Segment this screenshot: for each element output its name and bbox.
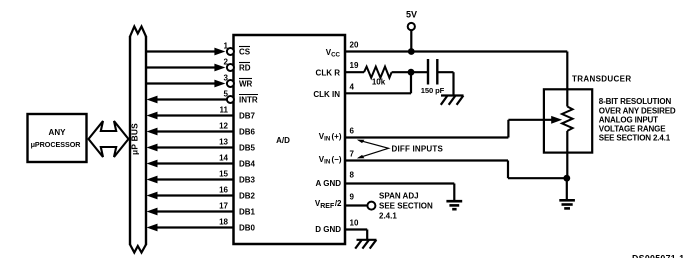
- svg-text:13: 13: [219, 137, 228, 146]
- svg-text:2: 2: [224, 57, 229, 66]
- pin 16 DB2 wire: [147, 185, 234, 199]
- svg-text:10k: 10k: [372, 78, 386, 87]
- pin label DB5: [239, 143, 256, 152]
- pin label WR: [239, 79, 253, 89]
- pin 7 label: [319, 150, 355, 166]
- D GND pin10 wire: [345, 230, 367, 240]
- svg-text:VIN(+): VIN(+): [319, 132, 342, 143]
- pin label DB0: [239, 223, 256, 232]
- svg-text:D GND: D GND: [315, 225, 341, 234]
- pin label DB7: [239, 111, 256, 120]
- svg-text:VOLTAGE RANGE: VOLTAGE RANGE: [599, 125, 666, 134]
- 5V supply terminal: [406, 10, 417, 52]
- pin label RD: [239, 63, 251, 73]
- svg-text:DB6: DB6: [239, 127, 256, 136]
- potentiometer element: [562, 107, 573, 179]
- earth ground at transducer: [559, 178, 575, 208]
- svg-text:3: 3: [224, 73, 229, 82]
- pin 11 DB7 wire: [147, 105, 234, 119]
- pin label DB3: [239, 175, 256, 184]
- svg-text:DB3: DB3: [239, 175, 256, 184]
- svg-text:9: 9: [350, 193, 355, 202]
- junction pot bottom: [563, 175, 570, 182]
- transducer box: [544, 89, 592, 152]
- svg-text:DS005071-1: DS005071-1: [632, 254, 684, 258]
- pin label DB1: [239, 207, 256, 216]
- svg-text:6: 6: [350, 127, 355, 136]
- svg-text:SPAN ADJ: SPAN ADJ: [379, 191, 419, 200]
- svg-text:2.4.1: 2.4.1: [379, 212, 397, 221]
- junction R/C/CLKIN: [408, 69, 415, 76]
- svg-text:ANY: ANY: [49, 128, 67, 137]
- svg-text:4: 4: [350, 82, 355, 91]
- svg-text:CLK IN: CLK IN: [313, 90, 340, 99]
- svg-text:TRANSDUCER: TRANSDUCER: [572, 75, 632, 84]
- svg-text:7: 7: [350, 150, 355, 159]
- svg-text:150 pF: 150 pF: [421, 86, 445, 95]
- pin 12 DB6 wire: [147, 121, 234, 135]
- svg-text:DB4: DB4: [239, 159, 256, 168]
- pin 18 DB0 wire: [147, 217, 234, 231]
- junction Vcc/5V: [408, 48, 415, 55]
- svg-text:20: 20: [350, 41, 359, 50]
- Vin(-) pin7 wire: [345, 161, 567, 179]
- uP BUS band: [130, 27, 147, 253]
- pin 17 DB1 wire: [147, 201, 234, 215]
- svg-text:A GND: A GND: [316, 179, 342, 188]
- svg-text:DIFF INPUTS: DIFF INPUTS: [392, 144, 444, 153]
- svg-text:10: 10: [350, 219, 359, 228]
- note 8-bit resolution: [599, 97, 676, 142]
- svg-text:11: 11: [220, 105, 229, 114]
- svg-text:OVER ANY DESIRED: OVER ANY DESIRED: [599, 106, 676, 115]
- svg-text:19: 19: [350, 61, 359, 70]
- pin 10 label: [315, 219, 359, 235]
- pin 9 label: [315, 193, 355, 211]
- pin 4 label: [313, 82, 354, 99]
- capacitor 150 pF: [421, 59, 454, 96]
- A/D converter chip U1: [234, 35, 346, 244]
- pin 2 RD wire: [146, 57, 234, 71]
- svg-text:5V: 5V: [406, 10, 417, 20]
- svg-text:ANALOG INPUT: ANALOG INPUT: [599, 115, 658, 124]
- bidirectional bus arrow: [89, 121, 129, 157]
- svg-text:1: 1: [224, 41, 229, 50]
- pin 15 DB3 wire: [147, 169, 234, 183]
- CLK IN pin4 wire: [345, 72, 411, 93]
- pin label CS: [239, 47, 251, 57]
- svg-text:VREF/2: VREF/2: [315, 199, 342, 210]
- svg-text:VIN(−): VIN(−): [319, 155, 342, 166]
- box ANY uPROCESSOR: [28, 114, 87, 162]
- pin 20 label: [326, 41, 359, 59]
- resistor 10k on CLK R: [345, 67, 427, 87]
- pin 3 WR wire: [146, 73, 234, 87]
- SPAN ADJ note: [379, 191, 433, 220]
- svg-text:5: 5: [224, 89, 229, 98]
- Vcc pin20 wire: [345, 50, 567, 52]
- svg-text:12: 12: [219, 121, 228, 130]
- svg-text:16: 16: [219, 185, 228, 194]
- DIFF INPUTS callout: [357, 140, 444, 159]
- earth ground at A GND: [446, 201, 462, 209]
- Vref/2 pin9 stub: [345, 202, 375, 210]
- svg-text:RD: RD: [239, 63, 251, 72]
- svg-text:DB0: DB0: [239, 223, 256, 232]
- pin label DB4: [239, 159, 256, 168]
- chassis ground at 150pF: [441, 96, 464, 105]
- svg-text:15: 15: [219, 169, 228, 178]
- pin 8 label: [316, 171, 355, 189]
- pin 1 CS wire: [146, 41, 234, 55]
- pin 5 INTR wire: [147, 89, 234, 103]
- svg-text:A/D: A/D: [276, 136, 290, 145]
- svg-text:14: 14: [219, 153, 228, 162]
- svg-text:17: 17: [219, 201, 228, 210]
- svg-text:SEE SECTION 2.4.1: SEE SECTION 2.4.1: [599, 134, 671, 143]
- svg-text:INTR: INTR: [239, 95, 258, 104]
- Vin(+) pin6 wire: [345, 116, 562, 138]
- svg-text:WR: WR: [239, 79, 253, 88]
- A GND pin8 wire: [345, 184, 454, 201]
- pin label DB6: [239, 127, 256, 136]
- pin label DB2: [239, 191, 256, 200]
- svg-text:VCC: VCC: [326, 48, 341, 59]
- pin 19 label: [316, 61, 359, 77]
- svg-text:CLK R: CLK R: [316, 69, 341, 78]
- svg-text:DB5: DB5: [239, 143, 256, 152]
- svg-text:DB2: DB2: [239, 191, 256, 200]
- svg-text:8-BIT RESOLUTION: 8-BIT RESOLUTION: [599, 97, 672, 106]
- pin 14 DB4 wire: [147, 153, 234, 167]
- chassis ground at D GND: [355, 240, 376, 249]
- svg-text:μPROCESSOR: μPROCESSOR: [31, 140, 82, 149]
- pin 6 label: [319, 127, 355, 143]
- pin 13 DB5 wire: [147, 137, 234, 151]
- svg-text:DB7: DB7: [239, 111, 256, 120]
- svg-text:18: 18: [219, 217, 228, 226]
- pin label INTR: [239, 95, 258, 105]
- svg-text:CS: CS: [239, 47, 251, 56]
- svg-text:SEE SECTION: SEE SECTION: [379, 202, 433, 211]
- svg-text:8: 8: [350, 171, 355, 180]
- svg-text:DB1: DB1: [239, 207, 256, 216]
- svg-text:μP BUS: μP BUS: [130, 123, 140, 155]
- wire Vcc to transducer: [566, 52, 568, 107]
